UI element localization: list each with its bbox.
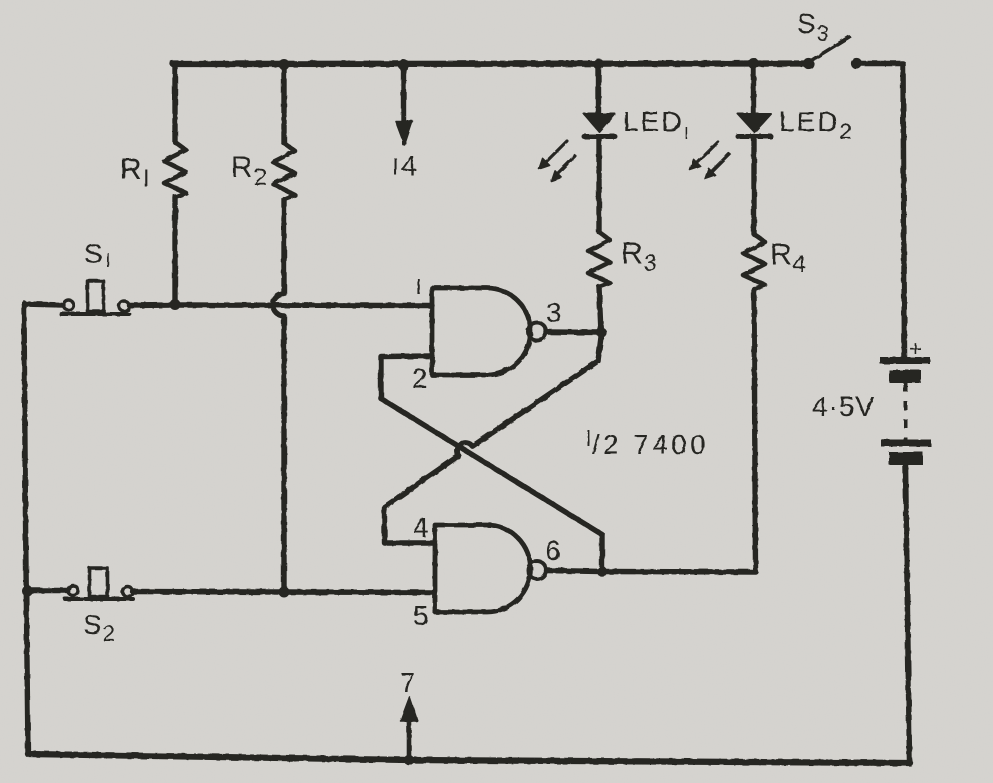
node dot left rail S2 <box>22 585 33 596</box>
svg-text:3: 3 <box>546 297 563 328</box>
svg-text:4: 4 <box>413 512 430 543</box>
LED1 diode <box>584 114 615 132</box>
wire R3 to node 3 <box>599 287 601 333</box>
NAND gate U1a body <box>432 288 531 375</box>
NAND gate U1b body <box>435 525 531 612</box>
svg-text:+: + <box>909 336 923 361</box>
node dot pin14 <box>398 60 409 71</box>
wire gate1 input 2 elbow <box>381 356 432 399</box>
svg-text:l4: l4 <box>393 150 418 181</box>
gate 2 output bubble <box>528 561 546 579</box>
switch S3 terminal left <box>803 58 814 69</box>
battery B1 plates <box>880 357 930 364</box>
node dot LED2 top <box>748 58 759 69</box>
svg-text:l/2 7400: l/2 7400 <box>586 426 709 460</box>
wire S2 to gate2 input 5 <box>284 589 435 595</box>
svg-text:6: 6 <box>545 535 562 566</box>
wire R1 vertical bottom <box>172 197 177 305</box>
svg-text:7: 7 <box>400 667 417 698</box>
wire diagonal A down to node 6 <box>599 535 604 573</box>
svg-text:5: 5 <box>413 600 430 631</box>
node A output 3 junction <box>596 327 606 337</box>
resistor R3 <box>588 232 610 287</box>
wire elbow into gate2 input 4 <box>385 507 436 543</box>
wire R1 vertical top <box>172 64 177 142</box>
pin 14 arrowhead <box>402 122 405 144</box>
resistor R2 <box>273 143 295 199</box>
wire cross diagonal B (3 to 4) with hop <box>385 361 599 507</box>
switch S1 wires and contacts <box>24 304 63 305</box>
wire LED2 to R4 <box>751 137 756 234</box>
wire LED1 to R3 <box>596 137 601 232</box>
node dot pin7 bottom <box>404 755 414 765</box>
wire top rail <box>173 60 808 67</box>
LED2 diode <box>738 114 771 132</box>
wire bottom rail <box>28 754 910 763</box>
node dot R2 top <box>279 59 290 70</box>
resistor R4 <box>743 234 765 289</box>
wire cross diagonal A (2 to 6) <box>381 399 602 535</box>
wire S3 to right rail corner <box>861 64 905 358</box>
switch S3 terminal right <box>851 58 862 69</box>
wire left rail <box>24 303 28 754</box>
pin 14 stub <box>401 65 406 122</box>
switch S3 lever <box>812 37 849 60</box>
switch S2 wires and contacts <box>27 588 67 593</box>
LED2 light arrows <box>690 142 729 179</box>
wire S1 to gate1 input 1 <box>175 302 432 308</box>
node B output 6 junction <box>597 566 607 576</box>
svg-text:l: l <box>416 276 422 299</box>
wire R2 vertical with hop over S1 line <box>273 199 284 592</box>
wire R2 vertical top <box>281 64 286 143</box>
LED1 light arrows <box>539 141 575 181</box>
gate 1 output bubble <box>528 323 546 341</box>
pin 7 arrow <box>407 719 412 760</box>
wire R4 down to node 6 line <box>754 289 756 571</box>
node dot R1-S1 <box>170 299 181 310</box>
node dot R2-S2 <box>279 587 290 598</box>
resistor R1 <box>164 142 186 197</box>
wire LED2 anode <box>751 64 756 114</box>
wire node 3 down to cross diagonal <box>598 333 602 361</box>
svg-text:4·5V: 4·5V <box>812 391 875 422</box>
wire LED1 anode <box>596 64 601 114</box>
wire gate2 output to node 6 and R4 <box>547 571 757 573</box>
node dot LED1 top <box>593 59 604 70</box>
wire battery negative to bottom rail <box>906 465 910 761</box>
wire gate1 output to node 3 <box>547 329 602 335</box>
svg-text:2: 2 <box>412 363 429 394</box>
